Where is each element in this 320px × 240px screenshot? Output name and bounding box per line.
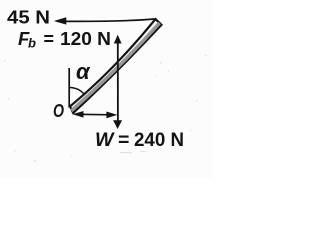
svg-text:=: = [44, 29, 55, 49]
vertical reference line at O [68, 68, 70, 108]
svg-text:O: O [53, 100, 64, 121]
label Fb = 120 N [18, 28, 111, 51]
angle arc alpha [69, 87, 85, 94]
label W = 240 N [95, 129, 184, 151]
svg-text:45 N: 45 N [7, 7, 50, 28]
force arrow 45 N (horizontal, pointing left) [54, 17, 156, 24]
faint scan speckles (decorative noise) [4, 55, 207, 162]
force arrow W (down arrowhead) [113, 120, 122, 129]
rod (bar from O up-right) [70, 19, 162, 113]
svg-text:b: b [28, 36, 36, 51]
dimension arrow (double headed, O to W line) [73, 111, 118, 118]
force arrow Fb (up arrowhead) [114, 35, 122, 44]
svg-text:240 N: 240 N [134, 129, 184, 151]
svg-text:120 N: 120 N [60, 29, 111, 49]
svg-text:α: α [76, 59, 91, 84]
svg-text:=: = [118, 129, 129, 151]
svg-text:W: W [95, 129, 115, 151]
buoyancy / weight vertical line [117, 40, 119, 122]
